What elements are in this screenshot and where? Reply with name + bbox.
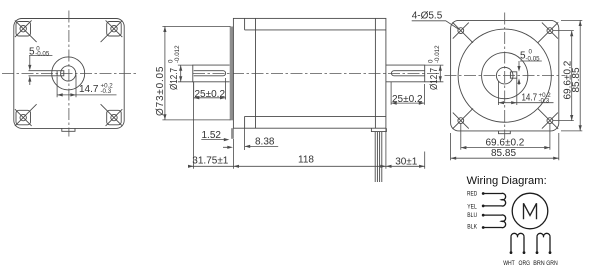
- svg-text:WHT: WHT: [503, 260, 515, 267]
- dimension 31.75: [188, 82, 239, 169]
- svg-text:118: 118: [298, 154, 314, 165]
- corner hole BL: [15, 104, 37, 126]
- svg-text:Ø12.7: Ø12.7: [429, 68, 440, 90]
- horizontal centerline: [2, 72, 136, 74]
- right side dimension 69.6: [553, 31, 574, 121]
- svg-text:ORG: ORG: [519, 260, 531, 267]
- svg-text:BLU: BLU: [467, 212, 477, 219]
- svg-text:-0.012: -0.012: [434, 45, 441, 63]
- svg-text:-0.012: -0.012: [174, 45, 181, 63]
- rear plate outline: [14, 19, 124, 129]
- svg-text:14.7: 14.7: [79, 84, 99, 95]
- svg-text:-0.3: -0.3: [539, 98, 550, 105]
- svg-text:-0.3: -0.3: [101, 88, 112, 95]
- svg-text:4-Ø5.5: 4-Ø5.5: [412, 10, 443, 21]
- pilot boss (gray): [230, 27, 234, 121]
- svg-text:69.6±0.2: 69.6±0.2: [486, 137, 525, 148]
- svg-text:30±1: 30±1: [395, 156, 418, 167]
- body top inner line: [245, 29, 386, 31]
- svg-text:14.7: 14.7: [522, 92, 538, 103]
- svg-text:Ø73±0.05: Ø73±0.05: [155, 66, 166, 116]
- corner hole BR: [538, 108, 559, 128]
- winding BRN-GRN: [537, 233, 550, 252]
- bearing boss circle: [482, 53, 528, 99]
- dimension 5 -0.05 (keyway width, left view): [28, 46, 52, 85]
- winding RED-YEL: [483, 193, 505, 206]
- svg-text:Wiring Diagram:: Wiring Diagram:: [467, 175, 547, 187]
- lead wires: [375, 132, 382, 182]
- letter M: [524, 203, 537, 219]
- svg-text:-0.05: -0.05: [526, 56, 541, 63]
- dimension 5 -0.05 (right view): [517, 49, 541, 86]
- front shaft keyway flat: [194, 71, 226, 76]
- svg-text:8.38: 8.38: [255, 136, 275, 147]
- corner hole TL: [15, 20, 37, 42]
- corner hole TR: [538, 22, 559, 43]
- pilot circle D73: [458, 29, 551, 122]
- svg-text:85.85: 85.85: [491, 148, 516, 159]
- dimension 1.52: [201, 130, 229, 141]
- svg-text:Ø12.7: Ø12.7: [169, 68, 180, 90]
- svg-text:0: 0: [529, 49, 533, 56]
- svg-text:BLK: BLK: [467, 223, 477, 230]
- shaft circle: [61, 66, 76, 81]
- corner hole TR: [101, 20, 123, 42]
- vertical centerline: [68, 11, 70, 137]
- keyway slot: [29, 71, 64, 76]
- corner hole TL: [453, 22, 474, 43]
- motor circle: [512, 193, 548, 229]
- svg-text:31.75±1: 31.75±1: [192, 156, 229, 167]
- keyway: [510, 72, 516, 78]
- wire exit block: [371, 128, 386, 131]
- dimension front D12.7: [168, 45, 193, 90]
- right side dimension 85.85: [561, 20, 582, 130]
- horizontal centerline: [193, 72, 441, 74]
- dimension 30: [386, 152, 425, 169]
- svg-text:YEL: YEL: [467, 203, 477, 210]
- shaft circle: [496, 67, 513, 84]
- body bottom inner line: [245, 115, 386, 117]
- dimension D73: [155, 26, 231, 120]
- horizontal centerline: [445, 75, 566, 77]
- svg-text:85.85: 85.85: [571, 67, 582, 92]
- winding BLU-BLK: [483, 215, 505, 228]
- stack boundary left: [255, 18, 257, 128]
- flange ext for 8.38: [244, 128, 246, 150]
- callout 4-D5.5: [412, 10, 459, 29]
- svg-text:RED: RED: [467, 190, 477, 197]
- svg-text:GRN: GRN: [546, 260, 558, 267]
- rear shaft: [386, 65, 425, 82]
- bottom dimension 69.6: [461, 124, 550, 150]
- bottom dimension 85.85: [451, 133, 559, 160]
- dimension 14.7 +0.2/-0.3 (left view): [57, 75, 116, 98]
- vertical centerline: [504, 13, 506, 140]
- svg-text:BRN: BRN: [533, 260, 545, 267]
- corner hole BR: [101, 104, 123, 126]
- motor body outline: [233, 18, 386, 128]
- dimension 8.38: [223, 136, 278, 149]
- svg-text:-0.05: -0.05: [35, 50, 50, 57]
- boss circle: [52, 57, 85, 90]
- bottom tab: [499, 131, 511, 134]
- svg-text:25±0.2: 25±0.2: [392, 94, 423, 105]
- dimension front 25: [194, 78, 226, 100]
- dimension 118: [233, 128, 386, 169]
- dimension 14.7 (right view): [498, 78, 553, 105]
- front plate outline: [451, 20, 559, 130]
- bottom tab: [62, 128, 75, 131]
- dimension rear D12.7: [425, 45, 444, 90]
- terminal dots bottom: [510, 251, 513, 254]
- dimension rear 25: [391, 82, 424, 105]
- stack boundary right: [374, 18, 376, 128]
- corner hole BL: [453, 108, 474, 128]
- rear shaft keyway flat: [391, 71, 424, 76]
- front shaft: [193, 65, 230, 82]
- flange step verticals: [244, 18, 246, 128]
- winding WHT-ORG: [511, 233, 524, 252]
- svg-text:25±0.2: 25±0.2: [195, 89, 226, 100]
- pilot boss extension (gray): [231, 128, 234, 139]
- terminal dots left: [482, 192, 485, 195]
